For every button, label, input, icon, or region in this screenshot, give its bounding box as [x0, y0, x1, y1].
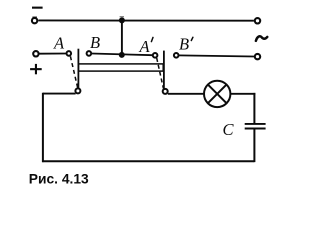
- capacitor C1 plates: [245, 124, 266, 129]
- switch blade left alternate position (dashed to contact A): [70, 56, 77, 88]
- terminal (AC bottom right): [255, 54, 260, 59]
- wire (right vertical, lamp corner down to capacitor top plate): [253, 93, 255, 124]
- mechanical linkage bar between the two blades: [78, 64, 163, 71]
- switch blade left (solid, neutral position): [77, 49, 79, 88]
- node junction on top bus: [119, 17, 125, 23]
- print artifact tick above top bus junction: [120, 16, 124, 17]
- wire (top bus from DC minus terminal to AC terminal): [38, 19, 254, 21]
- wire (DC plus terminal to contact A): [39, 53, 66, 55]
- wire (left vertical side of load loop): [42, 93, 44, 162]
- wire (left pivot to left circuit corner): [43, 93, 76, 95]
- AC source tilde symbol: [256, 36, 267, 41]
- svg-text:C: C: [223, 120, 235, 139]
- wire (lamp to top right corner of load loop): [230, 93, 255, 95]
- wire (right pivot to lamp): [168, 93, 204, 95]
- plus polarity label of DC source: [30, 64, 42, 74]
- print artifact tick above DC minus terminal: [32, 17, 37, 18]
- wire (capacitor bottom plate down to bottom bus): [253, 129, 255, 163]
- minus polarity label of DC source: [32, 7, 43, 9]
- terminal (DC minus): [32, 18, 37, 23]
- wire (contact B to contact A', through junction): [91, 54, 152, 56]
- switch blade right (solid, neutral position): [163, 51, 165, 89]
- wire (contact B' to AC bottom terminal): [179, 55, 254, 56]
- terminal (DC plus): [33, 51, 38, 56]
- switch common pivot left: [75, 88, 80, 93]
- wire (vertical from top bus junction down to contact row): [121, 20, 123, 55]
- contact A: [67, 51, 72, 56]
- contact B': [174, 53, 179, 58]
- terminal (AC top right): [255, 18, 260, 23]
- node junction on contact row wire: [119, 52, 125, 58]
- label A' prime mark: [151, 37, 153, 41]
- wire (bottom side of load loop): [42, 160, 254, 162]
- switch common pivot right: [163, 89, 168, 94]
- svg-text:B: B: [179, 35, 189, 54]
- lamp (circle with X): [204, 81, 230, 107]
- svg-text:B: B: [90, 33, 100, 52]
- svg-text:A: A: [139, 37, 151, 56]
- contact A': [153, 53, 158, 58]
- svg-text:A: A: [53, 34, 65, 53]
- switch blade right alternate position (dashed to contact A'): [157, 58, 164, 88]
- svg-text:Рис. 4.13: Рис. 4.13: [29, 171, 89, 186]
- label B' prime mark: [191, 37, 193, 40]
- contact B: [87, 51, 92, 56]
